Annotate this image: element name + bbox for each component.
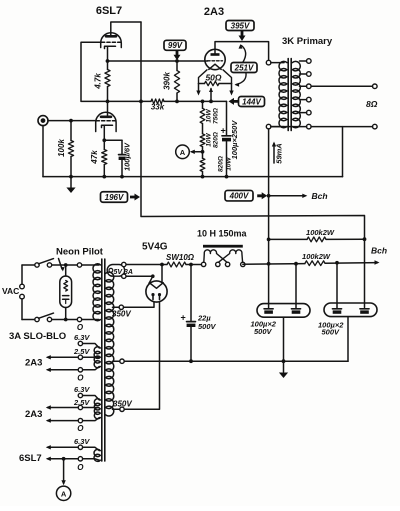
wire primary bottom <box>52 319 99 321</box>
svg-text:144V: 144V <box>242 97 261 106</box>
svg-text:400V: 400V <box>229 192 249 201</box>
wire 196V rail (plate supply) down right side <box>141 22 365 239</box>
svg-text:A: A <box>61 490 67 499</box>
svg-text:100µ/6V: 100µ/6V <box>123 142 132 171</box>
svg-text:59mA: 59mA <box>275 143 284 163</box>
terminal 8Ω hot <box>373 84 378 89</box>
svg-text:2.5V: 2.5V <box>73 398 90 407</box>
capacitor can 100µ×2 500V (right) <box>324 303 377 317</box>
terminal 350V lower tap <box>113 407 125 411</box>
power transformer 6.3V/2.5V winding (2A3 #1) <box>46 341 101 372</box>
svg-text:6SL7: 6SL7 <box>96 5 122 17</box>
switch S1b (line, bottom) <box>22 313 54 322</box>
title label 6SL7 <box>96 5 122 17</box>
label 144V boxed <box>239 97 265 107</box>
svg-text:2A3: 2A3 <box>25 409 42 420</box>
svg-text:350V: 350V <box>112 310 131 319</box>
wire V1a plate to top rail <box>111 22 141 36</box>
svg-text:O: O <box>77 323 84 332</box>
wire 350V upper plate lead <box>124 302 155 308</box>
terminal 350V upper tap <box>113 305 124 309</box>
svg-text:500V: 500V <box>322 328 341 337</box>
label 750Ω 10W <box>206 108 220 124</box>
svg-text:196V: 196V <box>105 193 124 202</box>
wire neon top <box>65 265 67 276</box>
node A (hum reference, lower) <box>56 459 70 501</box>
node A (hum reference, upper) <box>176 145 203 159</box>
wire Bch takeoff upper <box>269 194 308 198</box>
svg-text:10 H 150ma: 10 H 150ma <box>197 229 248 239</box>
svg-text:100k2W: 100k2W <box>306 228 335 237</box>
terminal 8Ω common <box>373 124 378 129</box>
wire secondary bottom / common <box>271 126 373 128</box>
svg-text:Bch: Bch <box>371 246 387 256</box>
wire OPT primary bottom down to B+ node <box>268 129 270 264</box>
svg-text:Bch: Bch <box>312 191 328 201</box>
svg-text:100µ×250V: 100µ×250V <box>230 120 239 160</box>
label 196V boxed <box>101 192 128 203</box>
svg-text:820Ω: 820Ω <box>213 132 220 148</box>
svg-text:820Ω: 820Ω <box>218 156 225 172</box>
label VAC <box>2 286 19 296</box>
svg-text:251V: 251V <box>234 63 254 72</box>
terminal primary top tap <box>77 263 81 267</box>
arrow 395V pointing down at plate wire <box>239 31 246 41</box>
resistor 100k 2W (lower, Bch feed) <box>243 252 380 266</box>
resistor 33k (V1b plate load) <box>108 99 203 112</box>
label O (group 1) <box>77 374 84 383</box>
label 6.3V (group 1) <box>74 333 90 342</box>
svg-text:750Ω: 750Ω <box>213 108 220 124</box>
svg-text:33k: 33k <box>151 103 165 112</box>
label 820Ω 10W (lower) <box>218 156 233 172</box>
svg-text:395V: 395V <box>231 21 250 30</box>
wire jack shell to ground bus <box>42 126 44 177</box>
wire left can cap A drop <box>268 264 270 308</box>
capacitor 100µ×250V (bias bypass) <box>203 101 240 176</box>
arrow 99V pointing down at grid wire <box>174 50 181 60</box>
label Neon Pilot <box>56 247 104 258</box>
neon pilot lamp NE1 <box>60 276 72 308</box>
capacitor 22µ 500V <box>187 265 196 362</box>
capacitor 100µ/6V (cathode bypass) <box>104 140 131 176</box>
wire 2A3 plate to OPT <box>215 42 269 61</box>
svg-text:5V4G: 5V4G <box>142 242 168 253</box>
power transformer T2 core <box>102 259 105 461</box>
label 2.5V (group 2) <box>73 398 90 407</box>
wire VAC left side <box>21 265 23 320</box>
label 5V4G <box>142 242 168 253</box>
label 820Ω 10W (middle) <box>206 132 220 148</box>
svg-text:99V: 99V <box>168 41 183 50</box>
arrow 59mA plate current <box>272 142 284 164</box>
resistor 750Ω 10W <box>200 101 205 176</box>
svg-text:+: + <box>181 313 186 323</box>
wire V1a cathode lead <box>107 46 109 61</box>
svg-text:10W: 10W <box>206 108 213 122</box>
wire 350V lower plate lead <box>124 302 159 409</box>
node 99V wire: cathode to 2A3 grid <box>108 60 206 62</box>
resistor 100k (grid leak) <box>57 121 74 177</box>
svg-text:VAC: VAC <box>2 286 19 296</box>
svg-text:10W: 10W <box>206 132 213 146</box>
svg-text:2A3: 2A3 <box>204 6 224 18</box>
wire right can to HV center tap wire <box>347 317 349 362</box>
terminal 5V tap lower <box>122 274 126 278</box>
terminal VAC upper <box>20 284 25 289</box>
terminal HV center tap <box>113 359 125 363</box>
svg-text:O: O <box>77 424 84 433</box>
label 395V boxed <box>226 21 254 31</box>
label 400V boxed <box>225 190 253 201</box>
terminal primary bottom tap <box>77 317 81 321</box>
arrow curved 251V to filament <box>235 73 247 87</box>
svg-text:350V: 350V <box>113 400 132 409</box>
svg-text:6.3V: 6.3V <box>74 385 90 394</box>
svg-text:+: + <box>221 126 226 136</box>
label + 22µ 500V <box>181 313 217 332</box>
output transformer secondary taps <box>300 59 312 115</box>
resistor SW10Ω <box>126 262 201 267</box>
arrow 144V pointing left at cathode node <box>229 98 239 105</box>
output transformer T1 core <box>288 59 291 131</box>
label 3K Primary <box>282 36 333 47</box>
wire V1a grid to V1b plate node <box>81 42 108 101</box>
svg-text:6.3V: 6.3V <box>74 333 90 342</box>
triode V1b (6SL7 section, input stage) <box>96 112 116 131</box>
arrow to neon lamp <box>59 259 65 272</box>
svg-text:SW10Ω: SW10Ω <box>166 253 195 262</box>
wire neon bottom <box>65 308 67 320</box>
label 2A3 (group 2) <box>25 409 42 420</box>
ground symbol <box>66 177 75 193</box>
svg-text:A: A <box>180 148 186 157</box>
svg-text:47k: 47k <box>90 150 99 165</box>
output transformer T1 secondary winding <box>292 61 300 127</box>
label 99V boxed <box>164 40 186 50</box>
resistor 100k 2W (upper, to 196V rail) <box>269 228 365 242</box>
label Bch (lower) <box>371 246 387 256</box>
arrow 400V pointing right at B+ line <box>257 192 267 199</box>
ground symbol (filter) <box>279 373 288 379</box>
svg-text:100k: 100k <box>57 139 66 157</box>
label 2A3 (group 1) <box>25 358 42 369</box>
power transformer 6.3V winding (6SL7) <box>46 445 101 461</box>
wire 196V filter cap drop <box>364 239 366 307</box>
label Bch (upper) <box>312 191 328 201</box>
label 5V 3A <box>114 269 133 276</box>
output transformer T1 primary terminal bottom <box>266 124 271 129</box>
input jack J1 <box>38 116 48 126</box>
label 6SL7 (heater) <box>19 453 42 464</box>
resistor 47k (V1b cathode bias) <box>90 125 107 176</box>
svg-text:100k2W: 100k2W <box>302 252 331 261</box>
svg-text:3A SLO-BLO: 3A SLO-BLO <box>9 331 66 342</box>
triode V1a (6SL7 section, cathode follower) <box>101 33 122 49</box>
power transformer 5V winding <box>107 265 124 277</box>
terminal VAC lower <box>20 294 25 299</box>
label 6.3V (group 2) <box>74 385 90 394</box>
wire 5V winding lower lead to tube <box>126 275 154 284</box>
wire ground bus <box>43 176 343 178</box>
svg-text:390k: 390k <box>163 72 172 90</box>
terminal secondary common tap <box>307 124 312 129</box>
svg-text:6.3V: 6.3V <box>74 437 90 446</box>
label SW10Ω <box>166 253 195 262</box>
svg-text:O: O <box>77 374 84 383</box>
wire primary top <box>52 264 99 266</box>
svg-text:500V: 500V <box>198 322 217 331</box>
label 251V boxed <box>231 63 257 73</box>
label 10 H 150ma <box>197 229 248 239</box>
wire 5V4G output drop <box>161 265 163 283</box>
wire left can cap B drop <box>295 264 297 309</box>
power transformer 6.3V/2.5V winding (2A3 #2) <box>46 393 101 423</box>
wire HV center tap to filter ground <box>124 360 348 362</box>
potentiometer 50Ω hum balance <box>196 70 233 102</box>
svg-text:6SL7: 6SL7 <box>19 453 42 464</box>
resistor 390k <box>163 61 180 101</box>
terminal 5V tap upper <box>122 262 126 266</box>
label O (primary 0) <box>77 323 84 332</box>
label O (group 2) <box>77 424 84 433</box>
svg-text:O: O <box>77 463 84 472</box>
switch S1a (line, top) <box>22 259 54 268</box>
wire secondary 8Ω tap to output terminal <box>311 85 372 87</box>
output transformer T1 primary terminal top <box>266 60 271 65</box>
power transformer HV secondary winding <box>106 272 114 416</box>
wire jack to V1b grid <box>48 120 96 122</box>
rectifier V3 5V4G <box>146 281 167 302</box>
power transformer primary winding <box>93 264 101 321</box>
label 6.3V (group 3) <box>74 437 90 446</box>
arrow curved 251V to plate wire <box>239 44 246 62</box>
label O (group 3) <box>77 463 84 472</box>
label 350V (lower) <box>113 400 132 409</box>
output transformer T1 primary winding <box>271 61 287 127</box>
wire V1b plate lead <box>107 101 109 116</box>
label 3A SLO-BLO <box>9 331 66 342</box>
label 100µ×2 500V (left) <box>251 320 277 337</box>
wire 2A3 grid lead <box>205 60 208 62</box>
svg-text:50Ω: 50Ω <box>205 73 221 83</box>
svg-text:2A3: 2A3 <box>25 358 42 369</box>
wire secondary common to ground bus <box>342 127 344 177</box>
capacitor can 100µ×2 500V (left) <box>257 304 310 318</box>
svg-text:500V: 500V <box>254 327 273 336</box>
wire left can to ground <box>283 317 285 372</box>
label 2.5V (group 1) <box>73 347 90 356</box>
svg-text:3K Primary: 3K Primary <box>282 36 333 47</box>
arrow 196V pointing right at rail <box>130 194 140 201</box>
svg-text:2.5V: 2.5V <box>73 347 90 356</box>
resistor 4.7k (V1a cathode to V1b plate) <box>94 61 111 101</box>
svg-text:8Ω: 8Ω <box>366 99 378 109</box>
title label 2A3 <box>204 6 224 18</box>
svg-text:4.7k: 4.7k <box>94 73 103 90</box>
svg-text:Neon Pilot: Neon Pilot <box>56 247 104 258</box>
power triode V2 2A3 <box>205 49 225 69</box>
svg-text:5V 3A: 5V 3A <box>114 269 133 276</box>
label 100µ×2 500V (right) <box>318 321 344 337</box>
wire right can cap A drop <box>336 263 338 308</box>
label 8Ω <box>366 99 378 109</box>
choke L1 10H 150mA <box>201 245 245 267</box>
label 350V (upper) <box>112 310 131 319</box>
